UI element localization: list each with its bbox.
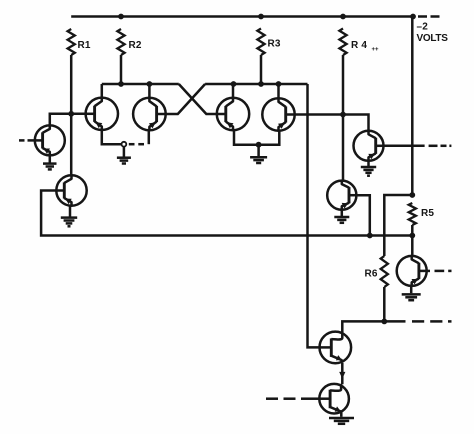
wire right collector rail xyxy=(205,83,307,86)
ground under left pair xyxy=(117,158,131,164)
wire -2V supply rail xyxy=(71,15,413,18)
wire Q3 emitter lead xyxy=(148,130,151,144)
ground under right pair xyxy=(250,157,267,163)
transistor Q2 xyxy=(86,98,118,130)
wire Q9 collector to output node xyxy=(342,321,405,332)
wire Q6 emitter to ground xyxy=(367,161,370,166)
transistor Q3 xyxy=(133,98,166,131)
ground under Q10 xyxy=(329,418,354,424)
wire Q10 base dashed input (dashed) xyxy=(266,397,313,400)
wire Q5 base to node B xyxy=(294,113,343,116)
svg-text:R2: R2 xyxy=(129,40,142,51)
wire cross-couple diagonal A xyxy=(179,84,218,114)
wire Q10 base stub xyxy=(313,397,319,400)
wire R1 lead down to node A xyxy=(70,55,73,114)
wire cross-couple diagonal B xyxy=(165,84,205,114)
transistor Q9 xyxy=(320,332,352,364)
wire Q1 emitter to ground xyxy=(49,155,52,163)
wire Q7 base to bottom bus xyxy=(356,195,370,235)
wire Q1b emitter to ground xyxy=(69,206,72,217)
ground under Q8 xyxy=(402,294,421,300)
wire Q1b base loop to bottom bus xyxy=(41,191,370,236)
transistor Q6 xyxy=(354,131,384,161)
wire R5 bottom lead xyxy=(411,225,414,236)
wire Q6 base out xyxy=(384,145,425,148)
transistor Q5 xyxy=(262,98,294,130)
Q9 emitter arrow on lead xyxy=(339,372,345,379)
wire Q9 emitter to Q10 collector xyxy=(341,363,344,384)
resistor R6 xyxy=(381,256,388,287)
ground under Q1 xyxy=(43,164,57,170)
transistor Q8 xyxy=(397,256,427,286)
wire Q8 base out xyxy=(427,270,430,273)
wire Q5 collector lead xyxy=(277,84,280,99)
wire Q8 emitter to ground xyxy=(410,286,413,293)
svg-text:R 4: R 4 xyxy=(351,40,367,51)
resistor R5 xyxy=(409,203,416,225)
wire R4 node B down to Q7 collector xyxy=(342,115,345,182)
transistor Q4 xyxy=(217,98,249,130)
ground under Q7 xyxy=(334,217,349,223)
wire right rail down to Q9 base xyxy=(308,84,320,347)
wire R4 lead down to node B xyxy=(342,55,345,115)
wire output dashed (dashed) xyxy=(412,320,452,323)
wire node A vertical to Q1b collector xyxy=(70,114,73,176)
wire left collector rail xyxy=(102,83,179,86)
wire Q3 collector lead xyxy=(148,84,151,99)
wire R3 lead down xyxy=(260,55,263,84)
wire Q2 collector lead xyxy=(101,84,104,98)
wire Q4 collector lead xyxy=(232,84,235,98)
resistor R4 xyxy=(339,29,346,56)
wire bottom bus right section xyxy=(370,234,413,237)
ground under Q1b xyxy=(61,218,77,227)
wire R2 lead down xyxy=(120,55,123,84)
wire Q6 base dashed out (dashed) xyxy=(429,145,452,148)
svg-text:R5: R5 xyxy=(421,208,434,219)
wire R5 top link to R6 top xyxy=(384,195,412,256)
wire Q10 emitter to ground xyxy=(340,412,343,416)
transistor Q10 xyxy=(319,384,349,414)
resistor R2 xyxy=(117,29,124,55)
wire -2V vertical feed to R5 xyxy=(411,17,414,196)
svg-text:VOLTS: VOLTS xyxy=(417,33,449,44)
wire R6 bottom lead to output node xyxy=(383,287,386,321)
svg-text:R1: R1 xyxy=(78,40,91,51)
wire Q5 emitter lead xyxy=(259,130,280,145)
terminal ring (emitter tap) xyxy=(122,142,127,147)
ground under Q6 xyxy=(361,167,376,176)
resistor R3 xyxy=(257,29,264,56)
transistor Q1b xyxy=(56,175,86,205)
wire Q8 collector lead xyxy=(411,236,414,257)
svg-text:R3: R3 xyxy=(268,39,281,50)
wire ring to ground xyxy=(123,147,126,157)
svg-text:++: ++ xyxy=(372,47,380,53)
junction dots xyxy=(118,14,124,20)
wire Q8 base dashed out (dashed) xyxy=(435,270,452,273)
svg-text:R6: R6 xyxy=(365,269,378,280)
wire Q4 emitter lead xyxy=(234,129,259,144)
wire Q2 emitter lead xyxy=(102,129,122,144)
wire Q7 emitter to ground xyxy=(341,209,344,216)
wire right pair ground lead xyxy=(257,145,260,156)
wire node B to Q6 collector xyxy=(343,115,369,131)
wire Q1 collector up to node A wire xyxy=(50,114,87,126)
wire emitter dashed link (dashed) xyxy=(129,143,144,146)
svg-text:–2: –2 xyxy=(417,22,429,33)
wire input to Q1 base (dashed) xyxy=(19,139,35,142)
resistor R1 xyxy=(68,29,75,55)
wire -2V rail continuation (dashed) xyxy=(418,15,440,18)
transistor Q7 xyxy=(327,181,356,210)
transistor Q1 xyxy=(35,125,65,155)
